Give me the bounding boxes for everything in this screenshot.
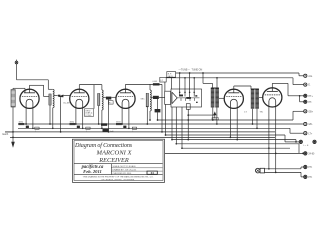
svg-text:L + E: L + E (304, 145, 309, 147)
svg-text:DRAWN BY: J.W. 25-2-11: DRAWN BY: J.W. 25-2-11 (113, 168, 138, 171)
svg-text:CU-6B: CU-6B (63, 103, 70, 105)
svg-text:E.: E. (308, 85, 311, 87)
svg-text:COND.: COND. (85, 115, 92, 117)
svg-text:400Ω: 400Ω (19, 121, 24, 123)
svg-text:GB-: GB- (308, 124, 312, 126)
svg-text:LT+: LT+ (308, 133, 313, 135)
svg-text:400Ω: 400Ω (70, 121, 75, 123)
svg-text:PH.: PH. (308, 167, 312, 169)
svg-text:HT-: HT- (308, 102, 312, 104)
svg-text:Feb. 2011: Feb. 2011 (83, 169, 102, 174)
svg-text:P.T.: P.T. (109, 102, 113, 104)
svg-text:A.E.: A.E. (308, 75, 313, 78)
svg-text:THIS DRAWING IS THE PROPERTY O: THIS DRAWING IS THE PROPERTY OF THE MARC… (83, 176, 154, 179)
svg-text:Earth: Earth (3, 133, 9, 136)
svg-text:OF CANADA, LIMITED - MONTREA: OF CANADA, LIMITED - MONTREAL (101, 178, 135, 181)
svg-text:PH.: PH. (308, 177, 312, 179)
svg-text:SCALE: NOT TO SCALE: SCALE: NOT TO SCALE (113, 165, 137, 168)
svg-text:Diagram of Connections: Diagram of Connections (74, 142, 133, 149)
svg-text:0.001: 0.001 (153, 81, 158, 83)
svg-text:RECEIVER: RECEIVER (98, 157, 129, 164)
svg-text:HT+: HT+ (308, 96, 313, 98)
svg-text:400Ω: 400Ω (116, 121, 121, 123)
svg-text:SEC: SEC (141, 98, 146, 100)
svg-text:24-80: 24-80 (308, 154, 315, 156)
svg-text:—TUNE—: —TUNE— (179, 69, 191, 72)
svg-text:MARCONI X: MARCONI X (96, 150, 133, 157)
svg-text:TUNE ON: TUNE ON (192, 69, 203, 72)
svg-text:GB+: GB+ (308, 111, 313, 113)
svg-text:JACK: JACK (168, 75, 174, 78)
